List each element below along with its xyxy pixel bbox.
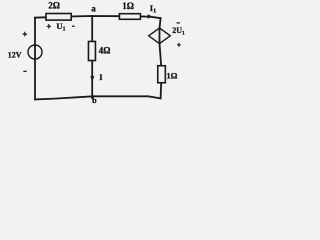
- voltage source 12V circle: [28, 45, 42, 59]
- plus sign of U1: [47, 24, 51, 28]
- svg-text:2Ω: 2Ω: [48, 1, 60, 11]
- minus sign of U1: [72, 25, 75, 27]
- wire right vertical: [160, 18, 162, 98]
- minus sign of dependent source: [177, 22, 181, 24]
- svg-text:4Ω: 4Ω: [99, 46, 111, 56]
- resistor 1ohm top box: [119, 14, 140, 20]
- wire left vertical: [34, 18, 36, 100]
- resistor 4ohm box: [88, 41, 95, 60]
- wire top (bowed): [35, 16, 161, 18]
- current arrow I1 head: [148, 14, 153, 18]
- minus sign of source: [23, 70, 26, 72]
- svg-text:a: a: [91, 4, 96, 14]
- svg-text:1Ω: 1Ω: [122, 1, 134, 11]
- current arrow I head: [90, 76, 94, 81]
- svg-text:1Ω: 1Ω: [166, 70, 177, 80]
- resistor 2ohm box: [46, 14, 71, 21]
- resistor 1ohm right box: [158, 66, 166, 83]
- plus sign of dependent source: [177, 43, 181, 47]
- wire bottom (bowed): [35, 96, 161, 99]
- svg-text:12V: 12V: [8, 51, 22, 60]
- dependent source diamond: [149, 28, 171, 44]
- wire middle branch: [91, 16, 93, 98]
- svg-text:b: b: [92, 95, 97, 105]
- plus sign of source: [23, 32, 28, 37]
